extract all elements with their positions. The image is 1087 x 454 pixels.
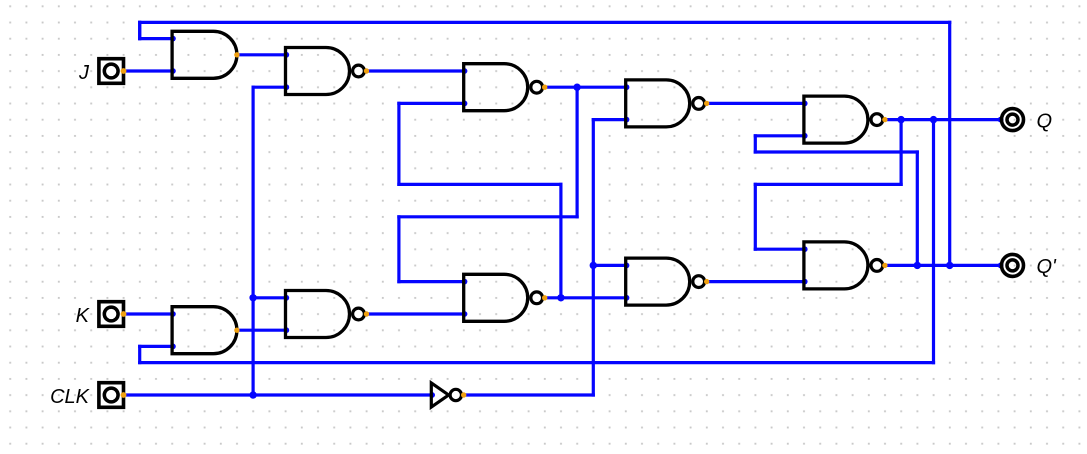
- node gate G10 bottom input: [802, 279, 808, 285]
- NAND gate G5: [804, 96, 883, 143]
- node gate G3 top input: [462, 68, 468, 74]
- wire G5 lower-input feedback run: [755, 150, 917, 153]
- pin dot gate G3 output: [542, 85, 547, 90]
- wire K button to gate G6: [124, 312, 173, 315]
- pin dot gate G2 output: [364, 68, 369, 73]
- junction gate G8 output: [557, 294, 564, 301]
- junction Q wire B: [930, 116, 937, 123]
- wire Q feedback riser: [932, 120, 935, 363]
- wire gate G5 to output Q: [885, 118, 1001, 121]
- wire into gate G3 lower input: [399, 102, 464, 105]
- wire gate G3 to gate G4: [545, 86, 626, 89]
- wire CLK' riser to gate G4 lower input: [593, 118, 625, 121]
- wire gate G6 lower elbow riser: [138, 346, 141, 362]
- wire into gate G10 top input: [755, 248, 804, 251]
- node gate G7 bottom input: [283, 327, 289, 333]
- node gate G8 top input: [462, 279, 468, 285]
- node gate G6 top input: [170, 311, 176, 317]
- wire CLK riser: [252, 87, 255, 395]
- svg-text:J: J: [78, 62, 90, 84]
- wire gate G2 to gate G3: [367, 69, 464, 72]
- junction CLK riser at gate G7: [249, 294, 256, 301]
- node output pin Q': [998, 263, 1004, 269]
- node gate G10 top input: [802, 246, 808, 252]
- wire cross-coupling B run: [399, 215, 577, 218]
- wire gate G10 top input riser: [754, 184, 757, 249]
- wire gate G9 to gate G10: [707, 280, 804, 283]
- node gate G5 top input: [802, 101, 808, 107]
- wire into gate G5 lower input: [755, 134, 804, 137]
- wire gate G1 to gate G2: [237, 53, 286, 56]
- svg-text:Q: Q: [1037, 110, 1053, 132]
- wire gate G7 to gate G8: [367, 312, 464, 315]
- output pin Q': [1002, 254, 1024, 276]
- AND gate G6: [172, 307, 237, 354]
- pin dot button K: [121, 311, 127, 317]
- pin dot gate G4 output: [704, 101, 709, 106]
- wire gate G1 top elbow: [138, 22, 141, 38]
- wire Q' junction riser: [916, 152, 919, 265]
- node gate G8 bottom input: [462, 311, 468, 317]
- node gate G1 bottom input: [170, 68, 176, 74]
- junction gate G3 output: [573, 84, 580, 91]
- junction CLK line: [249, 391, 256, 398]
- pin dot gate G1 output: [234, 52, 239, 57]
- NOT gate U11: [431, 383, 461, 407]
- wire gate G4 to gate G5: [707, 102, 804, 105]
- pin dot gate G6 output: [234, 328, 239, 333]
- wire CLK' riser: [592, 120, 595, 395]
- wire into gate G1 top input: [140, 37, 172, 40]
- wire cross-coupling B to gate G8 top input: [399, 280, 464, 283]
- AND gate G1: [172, 31, 237, 78]
- pin dot inverter U11 output: [461, 392, 466, 397]
- input button J: [99, 59, 124, 84]
- wire CLK riser to gate G7 top input: [253, 296, 285, 299]
- wire inverter output run: [464, 393, 594, 396]
- wire gate G3 lower input riser: [397, 103, 400, 184]
- node gate G5 bottom input: [802, 133, 808, 139]
- node gate G3 bottom input: [462, 101, 468, 107]
- wire gate G3 output riser: [575, 87, 578, 217]
- wire elbow top-left: [138, 22, 141, 38]
- NAND gate G7: [286, 291, 365, 338]
- wire into gate G6 lower input: [140, 345, 172, 348]
- node gate G9 bottom input: [624, 295, 630, 301]
- node gate G9 top input: [624, 263, 630, 269]
- node output pin Q: [998, 117, 1004, 123]
- wire Q' feedback riser: [948, 22, 951, 265]
- input button CLK: [99, 383, 124, 408]
- node gate G1 top input: [170, 36, 176, 42]
- NAND gate G2: [286, 48, 365, 95]
- pin dot gate G9 output: [704, 279, 709, 284]
- junction Q' wire A: [914, 262, 921, 269]
- NAND gate G9: [626, 258, 705, 305]
- wire gate G10 to output Q': [885, 264, 1001, 267]
- NAND gate G10: [804, 242, 883, 289]
- node gate G4 bottom input: [624, 117, 630, 123]
- wire Q feedback long run: [140, 361, 934, 364]
- junction CLK' at gate G9: [590, 262, 597, 269]
- wire cross-coupling B riser: [397, 217, 400, 282]
- svg-text:Q': Q': [1037, 256, 1058, 278]
- NAND gate G3: [464, 64, 543, 111]
- wire cross-coupling A upper run: [399, 183, 561, 186]
- NAND gate G4: [626, 80, 705, 127]
- input button K: [99, 302, 124, 327]
- node gate G4 top input: [624, 84, 630, 90]
- pin dot button CLK: [121, 392, 127, 398]
- wire gate G6 to gate G7: [237, 329, 286, 332]
- pin dot gate G7 output: [364, 311, 369, 316]
- junction Q' wire B: [946, 262, 953, 269]
- wire Q junction riser: [899, 120, 902, 185]
- NAND gate G8: [464, 274, 543, 321]
- wire cross-coupling A riser: [559, 184, 562, 297]
- pin dot gate G5 output: [882, 117, 887, 122]
- junction Q wire A: [897, 116, 904, 123]
- pin dot gate G10 output: [882, 263, 887, 268]
- wire Q feedback to gate G10 upper run: [755, 183, 901, 186]
- node gate G2 top input: [283, 52, 289, 58]
- wire gate G8 to gate G9: [545, 296, 626, 299]
- wire CLK riser to gate G2 lower input: [253, 86, 285, 89]
- pin dot gate G8 output: [542, 295, 547, 300]
- svg-text:CLK: CLK: [50, 386, 91, 408]
- wire gate G5 lower elbow riser: [754, 136, 757, 152]
- pin dot button J: [121, 68, 127, 74]
- wire J button to gate G1: [124, 69, 173, 72]
- output pin Q: [1002, 109, 1024, 131]
- node gate G2 bottom input: [283, 84, 289, 90]
- node gate G6 bottom input: [170, 344, 176, 350]
- wire CLK' riser to gate G9 top input: [593, 264, 625, 267]
- wire CLK button to inverter: [124, 393, 432, 396]
- svg-text:K: K: [76, 305, 91, 327]
- node inverter U11 input: [429, 392, 435, 398]
- node gate G7 top input: [283, 295, 289, 301]
- wire Q'-feedback top run: [140, 21, 950, 24]
